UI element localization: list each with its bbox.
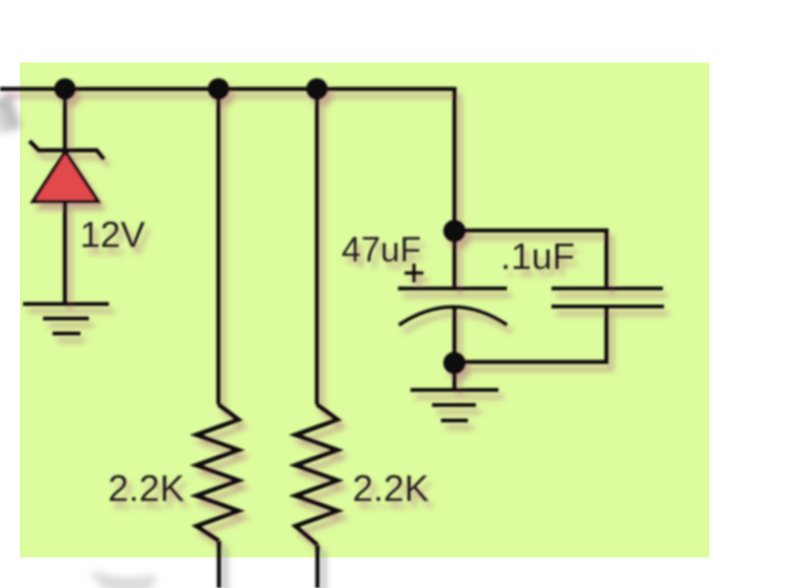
capacitor .1uF bottom plate bbox=[552, 305, 665, 309]
svg-text:2.2K: 2.2K bbox=[108, 467, 185, 509]
resistor R2 zigzag body bbox=[296, 405, 338, 546]
svg-text:12V: 12V bbox=[80, 214, 146, 255]
wire: rail down to zener cathode bbox=[63, 89, 67, 151]
wire: 47uF curved plate down to bottom node bbox=[452, 307, 456, 363]
junction dot at capacitor bottom node bbox=[443, 352, 465, 374]
junction dot at capacitor top node bbox=[443, 220, 465, 242]
wire: zener anode down to ground bbox=[63, 202, 67, 304]
zener diode triangle (12V) bbox=[33, 152, 98, 202]
ground symbol below zener: bar 2 bbox=[43, 317, 89, 321]
polarity plus sign for 47uF bbox=[405, 264, 424, 283]
capacitor .1uF top plate bbox=[552, 287, 664, 291]
resistor R1 zigzag body bbox=[197, 405, 239, 542]
wire: cap top node to .1uF top plate bbox=[455, 231, 607, 289]
zener diode cathode bar with bent ends bbox=[30, 141, 105, 159]
junction dot at R2 tap bbox=[306, 78, 328, 100]
svg-text:.1uF: .1uF bbox=[501, 235, 575, 277]
ground symbol below zener: bar 3 bbox=[53, 332, 81, 336]
ground symbol below capacitors: bar 3 bbox=[441, 419, 468, 423]
capacitor 47uF curved bottom plate bbox=[399, 307, 507, 325]
wire: cap top node down to 47uF positive plate bbox=[452, 231, 456, 289]
ground symbol below zener: bar 1 bbox=[23, 302, 109, 306]
ground symbol below capacitors: bar 2 bbox=[432, 403, 476, 407]
wire: R2 bottom lead bbox=[315, 545, 319, 588]
wire: rail down to resistor R2 bbox=[315, 89, 319, 405]
capacitor 47uF top plate bbox=[398, 287, 507, 291]
wire: top supply rail from left edge to capacitor branch corner bbox=[0, 89, 455, 231]
ground symbol below capacitors: bar 1 bbox=[411, 388, 499, 392]
wire: bottom node to ground bbox=[452, 363, 456, 390]
junction dot at R1 tap bbox=[208, 78, 230, 100]
wire: R1 bottom lead bbox=[217, 541, 221, 588]
svg-text:47uF: 47uF bbox=[342, 231, 422, 270]
junction dot at zener tap bbox=[54, 78, 76, 100]
wire: .1uF bottom plate back to bottom node bbox=[455, 307, 607, 363]
wire: rail down to resistor R1 bbox=[216, 89, 220, 405]
svg-text:2.2K: 2.2K bbox=[353, 467, 430, 509]
